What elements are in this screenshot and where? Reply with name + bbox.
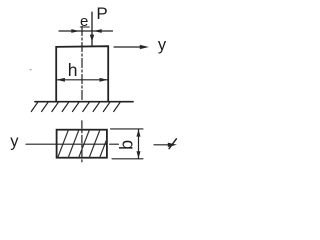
y axis arrowhead [140, 45, 149, 49]
b extension line bottom [112, 158, 143, 160]
h arrow right [100, 78, 109, 82]
svg-text:P: P [96, 4, 107, 23]
svg-text:y: y [158, 36, 167, 54]
e dimension line [59, 30, 113, 32]
load line P [91, 12, 93, 46]
section centerline (vertical axis) [81, 121, 83, 163]
section hatching [58, 130, 107, 157]
svg-text:b: b [117, 140, 137, 150]
slash through arrowhead [169, 139, 176, 149]
ground line [35, 101, 133, 103]
y axis (top view) [114, 46, 141, 48]
e arrow right (points left to load line) [94, 29, 102, 33]
far right axis arrow [154, 144, 171, 146]
column centerline (dash-dot axis) [81, 27, 83, 102]
section rectangle [57, 130, 107, 158]
section y axis inside rect [57, 143, 107, 145]
e underline [80, 26, 89, 28]
ground hatching [31, 102, 120, 111]
b extension line top [111, 128, 144, 130]
h arrow left [56, 78, 65, 82]
h dimension line [57, 79, 108, 81]
svg-text:h: h [68, 60, 78, 80]
b arrow down [137, 151, 141, 158]
svg-text:e: e [80, 13, 88, 30]
svg-text:y: y [10, 132, 19, 150]
e arrow left (points right to centerline) [71, 29, 79, 33]
section y axis dash right [110, 143, 119, 145]
b arrow up [137, 129, 141, 136]
b dimension line [138, 129, 140, 158]
section y axis line (left) [26, 143, 57, 145]
stray dot [30, 69, 31, 71]
arrowhead of P [90, 35, 94, 42]
column outline (elevation view) [56, 46, 108, 101]
